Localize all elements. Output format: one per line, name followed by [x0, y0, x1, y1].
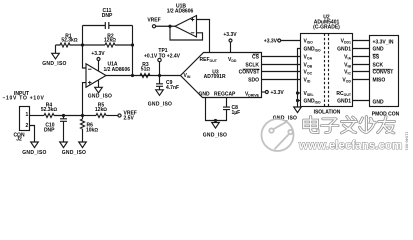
resistor R4	[44, 114, 54, 118]
wire feedback vertical to output	[132, 26, 134, 76]
test point TP1	[158, 58, 161, 61]
svg-text:4.7nF: 4.7nF	[166, 85, 179, 91]
ground GND_ISO (R6)	[79, 142, 87, 148]
char shao	[360, 117, 376, 133]
isolator U2 ADuM5401 box	[301, 34, 353, 107]
ground GND_ISO (R1 left end)	[55, 45, 57, 53]
svg-text:1/2 AD8606: 1/2 AD8606	[167, 8, 194, 14]
svg-text:GND1: GND1	[337, 99, 351, 105]
wire node B up to op-amp + input	[83, 83, 87, 116]
wire R4 to node A	[54, 115, 83, 117]
svg-text:GND: GND	[373, 46, 385, 52]
svg-text:SS: SS	[373, 54, 380, 60]
char dian	[304, 117, 318, 133]
wire VREF to U1B	[156, 25, 175, 27]
char you	[378, 117, 395, 133]
svg-text:+3.3V_IN: +3.3V_IN	[373, 39, 394, 45]
svg-text:GND_ISO: GND_ISO	[62, 150, 86, 156]
svg-text:J2: J2	[16, 137, 22, 143]
svg-text:+0.1V TO +2.4V: +0.1V TO +2.4V	[144, 54, 181, 60]
svg-text:52.3kΩ: 52.3kΩ	[61, 38, 78, 44]
connector PMOD CON box	[370, 36, 399, 107]
svg-text:CONVST: CONVST	[373, 69, 394, 75]
wire C11 left vertical	[82, 26, 84, 46]
svg-text:+3.3V: +3.3V	[264, 39, 278, 45]
resistor R5	[96, 114, 106, 118]
capacitor C11	[83, 25, 133, 27]
node E dot (output/feedback)	[131, 74, 134, 77]
node D dot (R2/C11 junction)	[131, 43, 134, 46]
capacitor C9	[159, 76, 161, 84]
svg-text:12kΩ: 12kΩ	[104, 38, 116, 44]
svg-text:DNP: DNP	[102, 13, 113, 19]
wire node B to R5	[83, 115, 97, 117]
svg-text:GND_ISO: GND_ISO	[22, 150, 46, 156]
svg-text:51Ω: 51Ω	[141, 67, 151, 73]
power +3.3V (U2 VISO)	[281, 40, 301, 42]
svg-text:2: 2	[26, 123, 29, 129]
char fa	[341, 117, 356, 133]
ground GND_ISO (U1A)	[98, 80, 100, 87]
ground GND_ISO (J2 pin2)	[31, 142, 39, 148]
svg-text:GND1: GND1	[337, 47, 351, 53]
svg-text:GND: GND	[373, 99, 385, 105]
svg-text:GND_ISO: GND_ISO	[203, 133, 227, 139]
svg-text:SCLK: SCLK	[245, 62, 259, 68]
wire SDO U3 to U2	[262, 79, 301, 81]
wire U2 GNDISO / VSEL to ground	[298, 49, 301, 108]
watermark chinese text	[304, 117, 395, 133]
wire node C to R2	[83, 44, 106, 46]
watermark logo	[262, 119, 294, 151]
resistor R1	[56, 43, 83, 47]
svg-text:1µF: 1µF	[232, 110, 241, 116]
svg-text:GND_ISO: GND_ISO	[148, 102, 172, 108]
wire U2 GND1 bottom to PMOD	[353, 100, 370, 102]
node G dot (U1B feedback)	[168, 25, 171, 28]
svg-text:SDO: SDO	[248, 77, 259, 83]
svg-text:REGCAP: REGCAP	[214, 92, 236, 98]
svg-text:+3.3V: +3.3V	[271, 90, 285, 96]
wire CS U3 to U2	[262, 56, 301, 58]
wire U2 VDD1 to PMOD	[353, 40, 370, 42]
wire U2 VIC to PMOD	[353, 71, 370, 73]
ground GND_ISO (U2)	[294, 107, 302, 113]
VREF terminal (U1B input)	[152, 25, 155, 28]
op-amp U1B (reference buffer, points left)	[175, 16, 197, 38]
ground GND_ISO (C9)	[156, 90, 164, 96]
wire pin1 to R4	[30, 115, 45, 117]
node A dot (C10 tap)	[62, 114, 65, 117]
wire R5 to VREF terminal	[106, 115, 118, 117]
svg-text:AD7091R: AD7091R	[204, 74, 226, 80]
char shao	[360, 117, 376, 133]
svg-text:+3.3V: +3.3V	[91, 51, 105, 57]
wire U2 VOD to PMOD	[353, 79, 370, 81]
svg-text:VREF: VREF	[147, 17, 160, 23]
svg-text:GND_ISO: GND_ISO	[88, 94, 112, 100]
ground GND_ISO (U3)	[215, 121, 217, 123]
VREF 2.5V terminal	[118, 114, 121, 117]
power +3.3V (U1A)	[97, 58, 100, 61]
svg-text:www.elecfans.com: www.elecfans.com	[298, 139, 402, 152]
wire R2 to feedback vertical	[115, 44, 133, 46]
svg-text:12kΩ: 12kΩ	[95, 107, 107, 113]
char zi	[321, 119, 338, 133]
svg-text:–10V TO +10V: –10V TO +10V	[2, 95, 44, 101]
resistor R2	[105, 43, 115, 47]
char dian	[304, 117, 318, 133]
wire node C down to - input	[83, 45, 87, 68]
svg-text:MISO: MISO	[373, 77, 386, 83]
svg-text:+3.3V: +3.3V	[223, 32, 237, 38]
char you	[378, 117, 395, 133]
capacitor C10	[63, 116, 65, 119]
wire U1B + input to REFOUT	[197, 20, 210, 53]
svg-text:11040-001: 11040-001	[405, 132, 410, 152]
resistor R6	[82, 116, 84, 120]
wire op-amp output line	[106, 75, 181, 77]
svg-text:CS: CS	[252, 54, 260, 60]
node B dot (R6 tap)	[81, 114, 84, 117]
wire U2 VIB to PMOD	[353, 64, 370, 66]
node H dot (GND/REGCAP join)	[214, 119, 217, 122]
U3 GND pin wire	[206, 98, 227, 121]
svg-text:CONVST: CONVST	[239, 69, 260, 75]
ADC U3 AD7091R body	[181, 53, 262, 98]
node I dot (VSEL join)	[296, 91, 299, 94]
wire CONVST U3 to U2	[262, 71, 301, 73]
node J dot (GNDISO join)	[296, 99, 299, 102]
svg-text:SCK: SCK	[373, 62, 384, 68]
svg-text:1/2 AD8606: 1/2 AD8606	[104, 67, 131, 73]
ground GND_ISO (C10)	[60, 142, 68, 148]
svg-text:52.3kΩ: 52.3kΩ	[41, 107, 58, 113]
svg-text:GND_ISO: GND_ISO	[42, 61, 66, 67]
op-amp U1A	[86, 64, 106, 87]
char zi	[321, 119, 338, 133]
svg-text:1: 1	[26, 112, 29, 118]
char fa	[341, 117, 356, 133]
svg-text:2.5V: 2.5V	[124, 116, 135, 122]
svg-text:GND: GND	[199, 92, 211, 98]
power +3.3V (U3 VDRIVE)	[262, 91, 266, 93]
connector J2 box	[20, 107, 30, 131]
svg-text:DNP: DNP	[44, 128, 55, 134]
wire U2 GND1 to PMOD	[353, 48, 370, 50]
wire pin2 to ground	[30, 126, 35, 143]
node C dot (feedback tap)	[81, 43, 84, 46]
power +3.3V (U3 VDD)	[230, 42, 232, 52]
capacitor C8	[226, 98, 228, 108]
svg-text:(C-GRADE): (C-GRADE)	[313, 25, 340, 31]
svg-text:10kΩ: 10kΩ	[86, 128, 98, 134]
svg-text:ISOLATION: ISOLATION	[314, 110, 341, 116]
wire U1B feedback loop	[170, 26, 203, 40]
resistor R3	[140, 74, 150, 78]
node F dot (TP1/C9 tap)	[158, 74, 161, 77]
wire U2 VIA to PMOD	[353, 56, 370, 58]
wire SCLK U3 to U2	[262, 64, 301, 66]
